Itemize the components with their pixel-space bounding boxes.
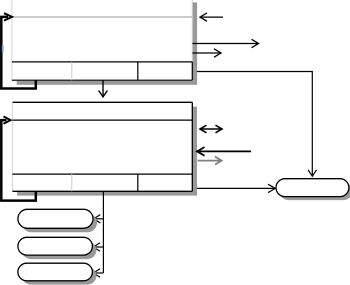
arrow into rect 1 from right (200, 16, 223, 18)
rect 2 shadow (17, 107, 197, 196)
branch to stadium 2 (94, 246, 104, 248)
rect 1 footer row top (12, 61, 192, 63)
rect 1 inner line (12, 16, 192, 18)
rect 1 (top box, cropped at top) (12, 0, 192, 80)
branch to stadium 1 (94, 218, 103, 220)
long arrow into rect 2 (197, 150, 251, 152)
stadium 1 (18, 209, 93, 228)
rect 1 footer row bottom (12, 79, 192, 81)
stadium 3 (18, 263, 93, 281)
double arrow right of rect 2 (200, 128, 222, 130)
rect 2 inner line (12, 119, 192, 121)
rect 2 right border (191, 102, 193, 191)
connector rect 1 to stadium right (197, 72, 312, 177)
self-loop arrowhead rect 2 (4, 116, 11, 123)
stadium 2 (18, 237, 93, 255)
down arrow rect 1 to rect 2 (102, 81, 104, 97)
branch to stadium 3 (94, 272, 104, 274)
connector rect 2 down to stadiums (102, 192, 104, 274)
rect 2 (lower box) (12, 102, 192, 191)
rect 2 left border (11, 102, 13, 191)
rect 1 footer divider dark (137, 62, 139, 80)
rect 2 top border (12, 101, 192, 103)
arrow out of rect 1 short (192, 52, 221, 54)
rect 1 shadow (17, 2, 197, 84)
stadium 2 shadow (22, 241, 97, 259)
self-loop arrow of rect 2 (1, 120, 36, 201)
self-loop arrowhead rect 1 (4, 13, 12, 20)
stadium right shadow (280, 182, 350, 200)
connector rect 2 to stadium right (197, 187, 275, 189)
stadium 3 shadow (22, 267, 97, 285)
rect 1 footer row right edge (191, 62, 193, 80)
arrow out of rect 1 long (192, 43, 258, 45)
self-loop arrow of rect 1 (1, 17, 36, 89)
blue tick (2, 45, 4, 53)
rect 2 footer row bottom (12, 190, 192, 192)
rect 2 footer row top (12, 173, 192, 175)
rect 2 footer divider dark (137, 174, 139, 191)
rect 1 footer divider light (71, 62, 73, 80)
stadium right (276, 179, 349, 197)
stadium 1 shadow (22, 213, 97, 232)
gray arrow out of rect 2 (198, 160, 222, 162)
rect 2 footer divider light (71, 174, 73, 191)
